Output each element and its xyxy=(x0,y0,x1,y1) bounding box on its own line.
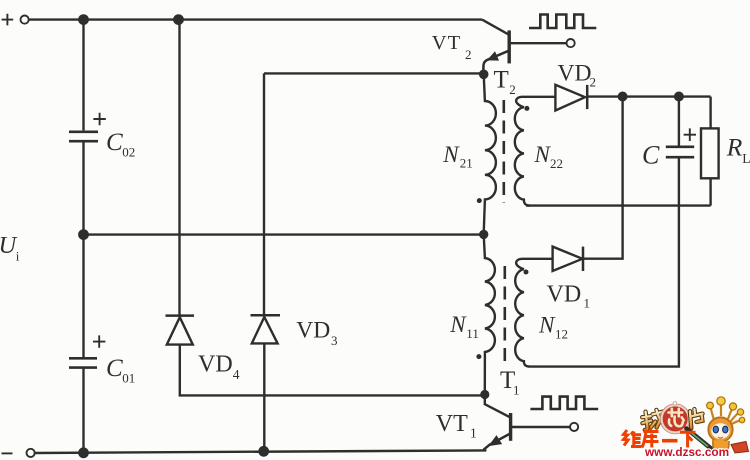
diode VD3 xyxy=(251,315,281,343)
svg-text:C: C xyxy=(642,141,660,170)
svg-text:4: 4 xyxy=(233,367,240,382)
diode VD4 xyxy=(166,316,195,345)
node - input terminal xyxy=(2,449,35,457)
svg-text:21: 21 xyxy=(460,156,473,171)
junction VD1 feed xyxy=(619,93,627,101)
svg-text:02: 02 xyxy=(122,145,135,160)
resistor RL xyxy=(701,97,719,206)
polarity dot N12 xyxy=(524,270,529,275)
svg-text:VD: VD xyxy=(558,61,592,87)
svg-text:T: T xyxy=(494,67,509,94)
svg-text:VD: VD xyxy=(198,351,233,377)
capacitor C02 xyxy=(69,113,106,141)
watermark text zhao xyxy=(641,409,666,430)
svg-text:2: 2 xyxy=(465,47,472,62)
junction C top xyxy=(675,93,683,101)
node collector junction VT1 xyxy=(481,391,488,398)
wire xyxy=(583,97,622,259)
wire xyxy=(263,343,265,451)
svg-text:VT: VT xyxy=(432,32,461,54)
wire xyxy=(263,73,265,315)
polarity dot N21 xyxy=(477,198,482,203)
capacitor C01 xyxy=(69,335,105,367)
node emitter junction xyxy=(480,71,487,78)
svg-text:C: C xyxy=(106,355,123,382)
svg-text:VD: VD xyxy=(547,281,582,307)
transformer T1 primary N11 xyxy=(484,235,495,395)
watermark text weikuyixia xyxy=(624,429,696,448)
capacitor C xyxy=(666,97,696,158)
polarity dot N22 xyxy=(524,106,529,111)
transistor VT1 xyxy=(484,395,570,451)
svg-text:i: i xyxy=(16,249,20,264)
svg-text:2: 2 xyxy=(590,75,597,90)
svg-text:12: 12 xyxy=(555,327,568,342)
transformer T2 core xyxy=(502,100,505,203)
wire xyxy=(178,20,180,316)
svg-text:N: N xyxy=(534,142,552,167)
junction mid rail right node xyxy=(480,231,487,238)
svg-text:2: 2 xyxy=(509,82,516,97)
polarity dot N11 xyxy=(476,354,481,359)
svg-text:R: R xyxy=(726,133,743,162)
diode VD2 xyxy=(555,85,587,111)
wire xyxy=(530,157,679,366)
svg-text:3: 3 xyxy=(331,333,338,348)
transistor VT2 xyxy=(482,20,566,72)
diode VD1 xyxy=(553,247,583,271)
svg-text:N: N xyxy=(538,313,556,338)
junction bottom rail VD3 xyxy=(260,447,268,455)
transformer T2 primary N21 xyxy=(484,74,496,231)
junction top rail left xyxy=(79,15,87,23)
node base terminal VT2 xyxy=(567,39,575,47)
svg-text:www.dzsc.com: www.dzsc.com xyxy=(644,445,729,459)
wire mid rail xyxy=(84,233,484,235)
pulse waveform VT2 drive xyxy=(529,15,596,29)
svg-text:1: 1 xyxy=(584,296,591,311)
junction top rail VD4 branch xyxy=(174,15,182,23)
svg-text:11: 11 xyxy=(466,326,479,341)
node + input terminal xyxy=(2,14,29,26)
svg-text:L: L xyxy=(742,151,750,166)
watermark mascot xyxy=(707,397,749,454)
wire output bottom rail xyxy=(526,204,711,206)
svg-text:01: 01 xyxy=(122,371,135,386)
transformer T1 core xyxy=(503,266,506,362)
watermark magnifier handle xyxy=(687,429,712,449)
wire bottom rail xyxy=(35,450,487,453)
watermark logo xyxy=(624,397,749,459)
svg-text:1: 1 xyxy=(470,426,477,441)
svg-text:VT: VT xyxy=(436,411,468,437)
watermark magnifier with xin xyxy=(660,401,690,434)
wire output top rail xyxy=(587,95,710,97)
svg-text:1: 1 xyxy=(513,383,520,398)
svg-text:N: N xyxy=(449,312,467,337)
wire xyxy=(522,258,553,260)
junction mid rail left xyxy=(79,230,87,238)
wire xyxy=(82,141,84,234)
wire xyxy=(82,20,84,131)
transformer T2 secondary N22 xyxy=(515,97,530,206)
svg-text:N: N xyxy=(442,142,460,167)
svg-text:C: C xyxy=(106,129,123,156)
wire xyxy=(82,235,84,358)
svg-text:VD: VD xyxy=(296,318,330,344)
pulse waveform VT1 drive xyxy=(530,397,598,409)
wire xyxy=(264,72,484,74)
watermark text pian xyxy=(689,408,704,428)
node base terminal VT1 xyxy=(570,423,578,431)
wire xyxy=(522,96,556,98)
wire xyxy=(180,345,485,396)
junction bottom rail left xyxy=(79,449,87,457)
wire xyxy=(82,368,84,453)
wire top rail xyxy=(29,18,482,20)
svg-text:22: 22 xyxy=(550,156,563,171)
transformer T1 secondary N12 xyxy=(515,259,530,367)
